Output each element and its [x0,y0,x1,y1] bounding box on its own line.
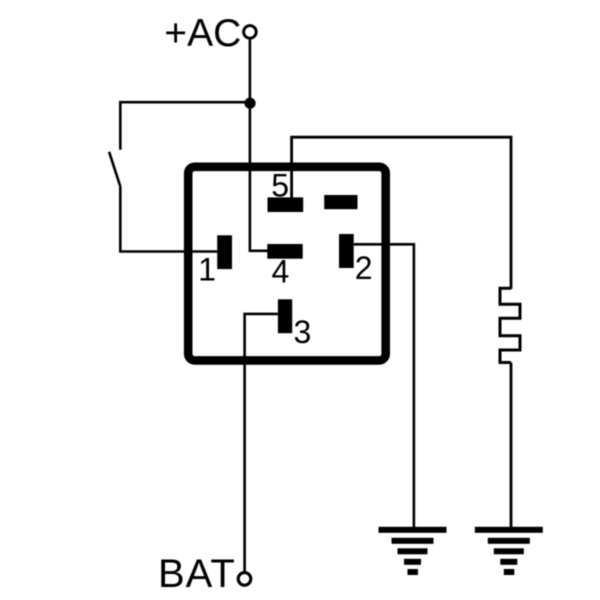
svg-text:2: 2 [355,250,373,286]
svg-text:4: 4 [272,254,290,290]
pin 1 blade [217,235,232,269]
resistor R1 [500,288,520,362]
ground G2 [475,527,543,575]
svg-text:1: 1 [198,252,216,288]
wire pin 3 to BAT terminal [245,314,278,571]
wire +AC terminal to junction [249,40,252,103]
pin 87a stub blade [324,195,357,209]
pin 5 blade [268,197,304,212]
svg-text:+AC: +AC [164,12,241,55]
junction dot [244,98,255,109]
relay K1 outline [188,167,386,361]
terminal +AC [244,26,257,39]
pin 4 blade [267,244,302,259]
wire resistor to ground G2 [510,363,513,529]
wire pin 2 to ground G1 [354,244,414,528]
svg-text:BAT: BAT [158,552,236,596]
svg-text:5: 5 [271,167,289,203]
pin 2 blade [339,234,354,268]
wire switch to pin 1 [120,186,218,252]
switch S1 blade [109,152,120,186]
wire junction to switch [120,102,250,150]
wire pin 5 riser to resistor [292,137,511,289]
svg-text:3: 3 [294,314,312,350]
pin 3 blade [278,299,292,333]
wire junction to pin 4 [250,102,268,251]
ground G1 [379,527,447,575]
terminal BAT [238,573,251,586]
